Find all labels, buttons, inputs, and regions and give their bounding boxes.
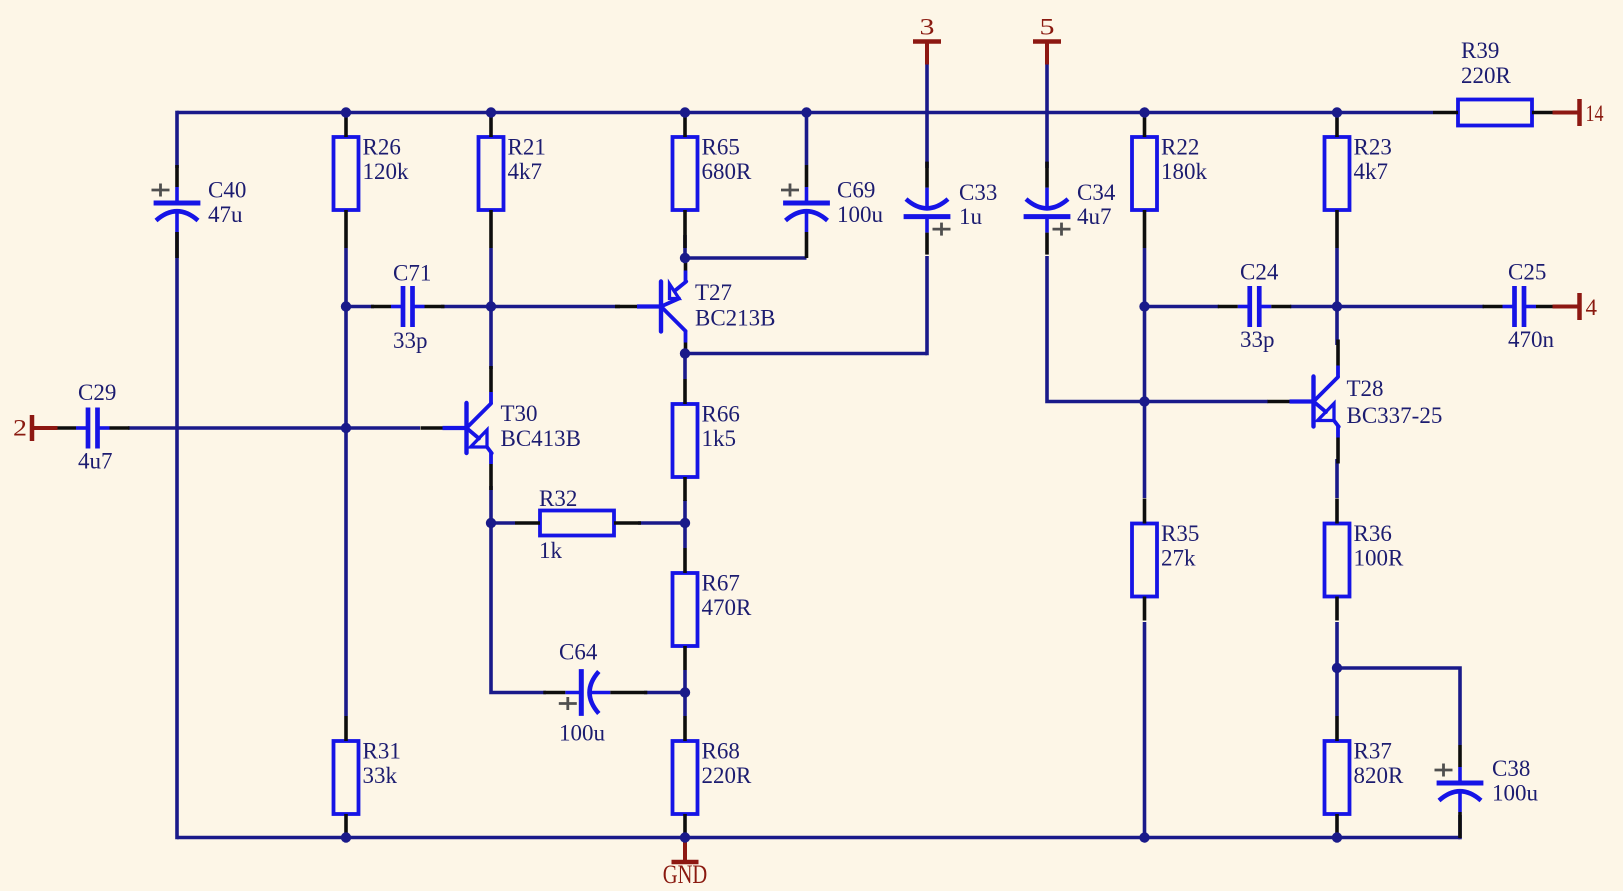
- svg-text:R26: R26: [363, 135, 401, 160]
- capacitor C40: [152, 165, 247, 258]
- wire V+ top rail: [177, 111, 1433, 115]
- supply pin 14: [1553, 99, 1604, 126]
- junction: [486, 518, 496, 528]
- svg-text:120k: 120k: [363, 159, 410, 184]
- wire column H: base row node down to R35: [1143, 402, 1147, 499]
- svg-text:3: 3: [920, 15, 935, 40]
- svg-text:R66: R66: [702, 402, 740, 427]
- svg-text:R37: R37: [1354, 739, 1392, 764]
- junction: [341, 107, 351, 117]
- wire C71 node to T27 base: [491, 305, 620, 309]
- svg-text:C29: C29: [78, 380, 116, 405]
- junction: [341, 832, 351, 842]
- wire left rail down from top corner: [175, 111, 179, 168]
- supply pin 4: [1553, 293, 1598, 320]
- svg-text:R67: R67: [702, 571, 740, 596]
- capacitor C24: [1218, 260, 1292, 353]
- resistor R36: [1325, 499, 1405, 621]
- wire column H: R22 bottom to C24 node: [1143, 248, 1147, 307]
- capacitor C71: [371, 261, 445, 354]
- wire column C: T30 emitter to R32 node: [489, 486, 493, 523]
- svg-text:1u: 1u: [959, 204, 983, 229]
- svg-text:R35: R35: [1161, 521, 1199, 546]
- wire column D: C64 node to R68: [683, 693, 687, 717]
- supply pin 2: [13, 415, 58, 441]
- wire C24 node to C24 left plate: [1145, 305, 1220, 309]
- svg-text:C38: C38: [1492, 756, 1530, 781]
- svg-text:680R: 680R: [702, 159, 753, 184]
- resistor R66: [673, 379, 740, 501]
- junction: [1332, 301, 1342, 311]
- wire column C: C71 node to T30 collector: [489, 307, 493, 370]
- capacitor C69: [781, 165, 884, 258]
- svg-text:4u7: 4u7: [78, 448, 113, 473]
- junction: [1139, 832, 1149, 842]
- junction: [1139, 107, 1149, 117]
- wire column I: R36 bottom to C38 node: [1335, 622, 1339, 668]
- junction: [680, 253, 690, 263]
- svg-text:R36: R36: [1354, 521, 1392, 546]
- wire column B: R26 bottom to C71 node: [344, 248, 348, 307]
- svg-text:GND: GND: [663, 860, 708, 889]
- resistor R37: [1325, 716, 1405, 838]
- svg-text:1k: 1k: [539, 538, 563, 563]
- wire column D: R65 bottom to C69 node: [683, 235, 687, 258]
- svg-text:BC337-25: BC337-25: [1347, 403, 1443, 428]
- wire input net: C29 to input node: [128, 426, 346, 430]
- wire left rail below C40 to bottom rail: [175, 232, 179, 839]
- capacitor C38: [1435, 745, 1539, 838]
- svg-text:4k7: 4k7: [508, 159, 543, 184]
- svg-text:27k: 27k: [1161, 546, 1196, 571]
- svg-text:220R: 220R: [1461, 63, 1512, 88]
- junction: [1139, 396, 1149, 406]
- wire C71 node to C71 left plate: [346, 305, 374, 309]
- junction: [341, 423, 351, 433]
- svg-text:33p: 33p: [393, 328, 428, 353]
- wire T27 collector node to C33 column: [685, 352, 927, 356]
- wire column B: input node down to R31: [344, 428, 348, 716]
- svg-text:470n: 470n: [1508, 327, 1555, 352]
- junction: [801, 107, 811, 117]
- wire column D: T27 collector node to R66: [683, 354, 687, 380]
- resistor R35: [1132, 499, 1199, 621]
- junction: [680, 107, 690, 117]
- svg-text:470R: 470R: [702, 595, 753, 620]
- svg-text:C40: C40: [208, 178, 246, 203]
- svg-text:T30: T30: [501, 401, 538, 426]
- wire C38 bottom to ground rail corner: [1458, 815, 1462, 839]
- ground GND: [663, 838, 708, 890]
- resistor R32: [515, 486, 641, 563]
- svg-text:C24: C24: [1240, 260, 1279, 285]
- resistor R68: [673, 716, 753, 838]
- junction: [1332, 832, 1342, 842]
- svg-text:220R: 220R: [702, 763, 753, 788]
- junction: [1332, 663, 1342, 673]
- wire column C: R21 bottom to C71 node: [489, 248, 493, 307]
- svg-text:100u: 100u: [1492, 781, 1539, 806]
- svg-text:BC413B: BC413B: [501, 426, 582, 451]
- resistor R23: [1325, 112, 1392, 248]
- svg-text:4: 4: [1586, 295, 1598, 320]
- svg-text:100u: 100u: [559, 721, 606, 746]
- wire C34 bottom down to T28 base row: [1047, 256, 1145, 402]
- wire column D: R32 node to R67: [683, 523, 687, 548]
- wire C69 column up to rail: [805, 113, 809, 166]
- capacitor C29: [56, 380, 130, 473]
- svg-text:14: 14: [1586, 101, 1604, 126]
- svg-text:C25: C25: [1508, 260, 1546, 285]
- wire column I: R23 bottom to C24 node: [1335, 248, 1339, 307]
- wire column D: R66 bottom to R32 node: [683, 500, 687, 523]
- svg-text:R32: R32: [539, 486, 577, 511]
- wire pin5 column down across rail to C34: [1045, 65, 1049, 169]
- wire column D: R67 bottom to C64 node: [683, 670, 687, 693]
- svg-text:180k: 180k: [1161, 159, 1208, 184]
- svg-text:33k: 33k: [363, 763, 398, 788]
- junction: [680, 832, 690, 842]
- transistor T27: [615, 258, 776, 355]
- wire R32 node to R32 left: [491, 521, 515, 525]
- supply pin 3: [913, 15, 941, 65]
- resistor R21: [479, 112, 546, 248]
- svg-text:47u: 47u: [208, 202, 243, 227]
- svg-text:4u7: 4u7: [1077, 204, 1112, 229]
- resistor R67: [673, 548, 753, 670]
- svg-text:R23: R23: [1354, 135, 1392, 160]
- wire C24 right plate to column I node: [1290, 305, 1337, 309]
- wire C69 node to C69 column: [685, 256, 807, 260]
- svg-text:100R: 100R: [1354, 546, 1405, 571]
- svg-text:R68: R68: [702, 739, 740, 764]
- transistor T30: [421, 366, 582, 490]
- transistor T28: [1268, 340, 1443, 464]
- junction: [1332, 107, 1342, 117]
- svg-text:1k5: 1k5: [702, 426, 737, 451]
- wire column H: C24 node to base row node: [1143, 307, 1147, 402]
- wire pin3 column down across rail to C33: [925, 65, 929, 169]
- resistor R26: [334, 112, 410, 248]
- capacitor C34: [1024, 162, 1116, 255]
- svg-text:4k7: 4k7: [1354, 159, 1389, 184]
- svg-text:R65: R65: [702, 135, 740, 160]
- capacitor C25: [1483, 260, 1557, 353]
- svg-text:820R: 820R: [1354, 763, 1405, 788]
- svg-text:BC213B: BC213B: [695, 306, 776, 331]
- junction: [486, 301, 496, 311]
- svg-text:R31: R31: [363, 739, 401, 764]
- capacitor C64: [543, 640, 647, 746]
- wire column I: C38 node to R37: [1335, 668, 1339, 716]
- resistor R22: [1132, 112, 1208, 248]
- svg-text:100u: 100u: [837, 202, 884, 227]
- junction: [1139, 301, 1149, 311]
- wire bottom ground rail: [177, 836, 1460, 840]
- svg-text:2: 2: [13, 416, 27, 441]
- wire C24 node to C25 left plate: [1337, 305, 1484, 309]
- wire column I: T28 emitter to R36: [1335, 459, 1339, 498]
- wire input node to T30 base: [346, 426, 420, 430]
- svg-text:R39: R39: [1461, 38, 1499, 63]
- wire column I: C24 node to T28 collector: [1335, 307, 1339, 346]
- svg-text:T28: T28: [1347, 376, 1384, 401]
- svg-text:5: 5: [1040, 15, 1055, 40]
- svg-text:33p: 33p: [1240, 327, 1275, 352]
- svg-text:C34: C34: [1077, 180, 1116, 205]
- wire R32 right to column D node: [638, 521, 685, 525]
- capacitor C33: [904, 162, 998, 255]
- junction: [680, 687, 690, 697]
- wire C64 right to column D node: [644, 691, 685, 695]
- wire T28 base row to T28 base: [1145, 400, 1269, 404]
- supply pin 5: [1033, 15, 1061, 65]
- wire C33 bottom to T27 collector row: [925, 256, 929, 355]
- wire column C: R32 node down to C64 row corner: [491, 523, 546, 693]
- svg-text:C69: C69: [837, 178, 875, 203]
- svg-text:C33: C33: [959, 180, 997, 205]
- junction: [341, 301, 351, 311]
- svg-text:C64: C64: [559, 640, 598, 665]
- wire column B: C71 node to input node: [344, 307, 348, 429]
- wire column H: R35 bottom to ground rail: [1143, 622, 1147, 838]
- junction: [680, 518, 690, 528]
- svg-text:C71: C71: [393, 261, 431, 286]
- svg-text:R21: R21: [508, 135, 546, 160]
- resistor R39: [1433, 38, 1559, 126]
- resistor R31: [334, 716, 401, 838]
- junction: [680, 348, 690, 358]
- resistor R65: [673, 112, 753, 248]
- svg-text:T27: T27: [695, 280, 732, 305]
- junction: [486, 107, 496, 117]
- wire C71 right plate to T30 collector column: [441, 305, 491, 309]
- svg-text:R22: R22: [1161, 135, 1199, 160]
- wire C38 node right and down to C38: [1337, 668, 1460, 745]
